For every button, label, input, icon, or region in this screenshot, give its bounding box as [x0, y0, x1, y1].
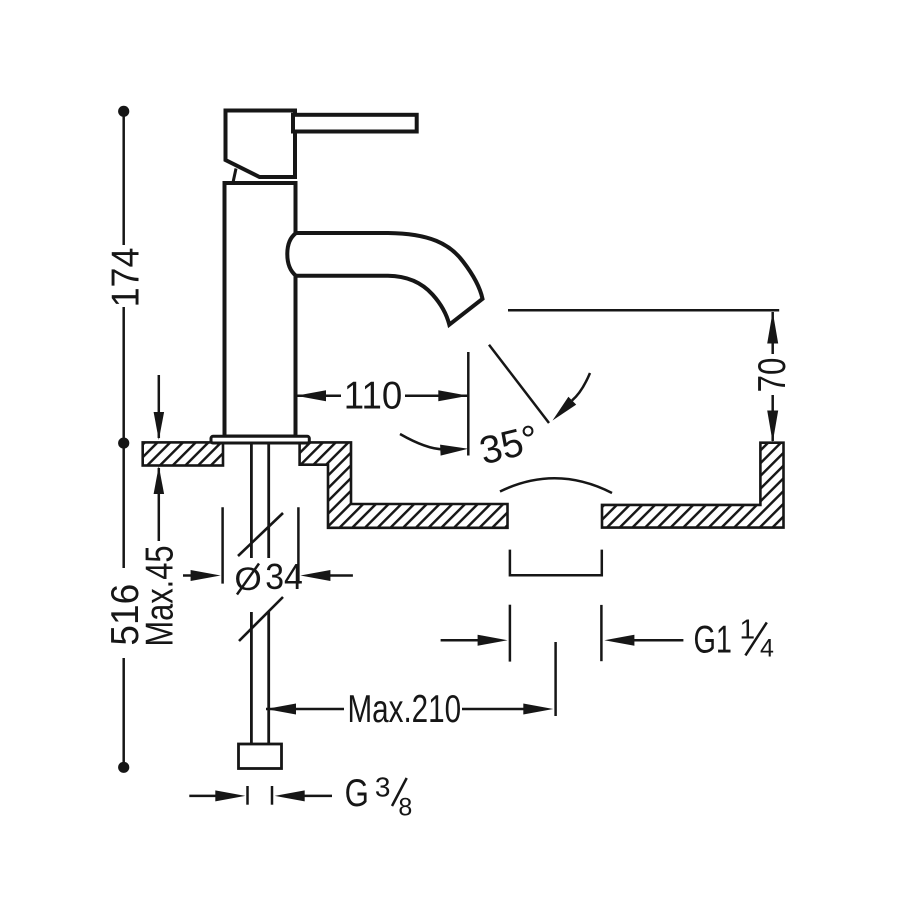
svg-text:3: 3 — [375, 772, 391, 803]
svg-text:1: 1 — [740, 613, 756, 644]
svg-text:70: 70 — [751, 358, 794, 393]
svg-text:Max.45: Max.45 — [138, 546, 181, 647]
svg-text:G1: G1 — [693, 618, 731, 661]
svg-text:34: 34 — [265, 557, 303, 597]
svg-text:4: 4 — [760, 635, 774, 663]
svg-text:35°: 35° — [475, 417, 543, 473]
svg-text:G: G — [345, 772, 369, 815]
svg-text:110: 110 — [344, 375, 402, 418]
svg-text:174: 174 — [103, 248, 147, 308]
svg-text:8: 8 — [398, 793, 412, 821]
svg-text:Max.210: Max.210 — [347, 688, 461, 731]
